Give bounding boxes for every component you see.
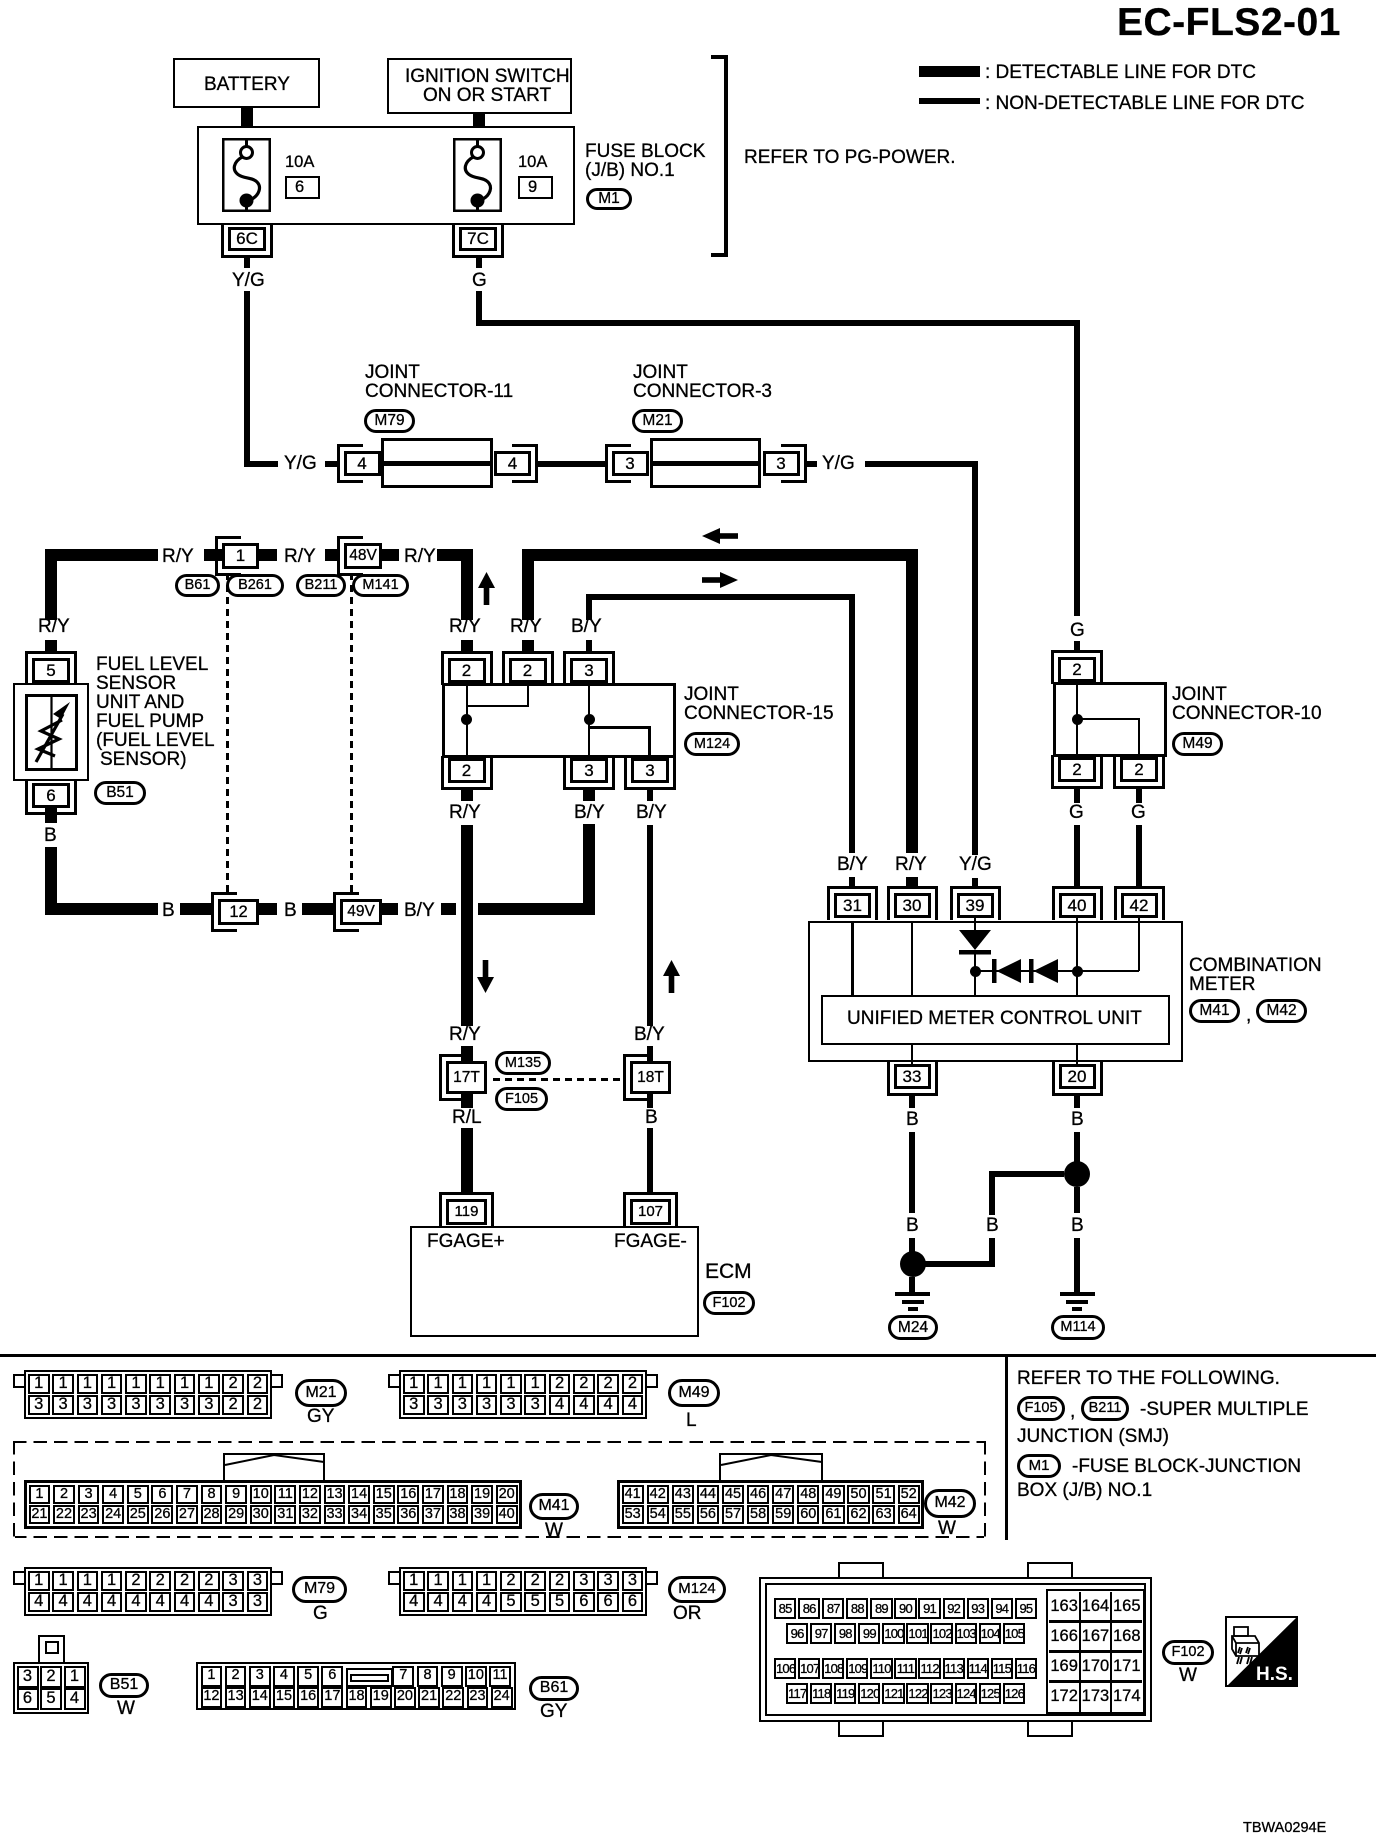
legend non-detectable text [985,94,1305,114]
JC-15 label line1 [684,685,739,705]
wire B/Y horizontal to pin 31 [586,594,855,600]
refer following line4 [1072,1457,1301,1477]
B51 top tab [38,1635,65,1664]
diode D1 pointing down [959,930,991,957]
ignition switch box [387,58,572,114]
dashed link below box 1 [226,573,229,895]
wire label G below JC-10 pin 2a [1069,803,1084,823]
title EC-FLS2-01 [1117,3,1341,44]
JC-10 top pin 2 [1051,650,1103,684]
JC-10 bottom pin 2a [1051,755,1103,789]
connector pinout B61 [196,1662,516,1710]
wire label B/Y bottom [404,901,435,921]
connector M49 oval [1172,732,1223,756]
wire Y/G horizontal to corner [865,461,978,467]
wire B vertical left [45,847,57,915]
JC-15 internal branch down [648,726,651,758]
wire B/Y segment before crossover [441,903,456,915]
connector M21 oval [632,409,683,433]
ignition switch label line2 [423,86,551,106]
wire G vertical from 7C [476,291,482,326]
connector pinout M124 [399,1567,647,1616]
refer to pg-power note [744,148,956,168]
ECM FGAGE+ label [427,1232,505,1252]
meter internal line pin 39 top [974,918,977,932]
meter internal line pin 39 to dot [974,954,977,995]
combination meter box [808,921,1183,1062]
connector M124 oval [684,732,740,756]
ECM label [705,1261,752,1283]
wire label B/Y above 18T [634,1025,665,1045]
M124 color OR [673,1604,702,1624]
wire B/Y vertical down to pin 31 [849,594,855,853]
connector B261 oval [226,574,284,597]
battery label [204,75,290,95]
fuse 9 number [528,179,537,196]
combination meter label line1 [1189,956,1322,976]
refer following line2 [1140,1400,1309,1420]
wire label B below pin 6 [44,826,57,846]
fuel sensor inner box [25,694,78,771]
wire B branch vertical lower [989,1238,995,1267]
wire label B/Y below JC-15 pin 3b [636,803,667,823]
connector B51 oval bottom [99,1673,149,1698]
JC-15 internal branch right [588,726,651,729]
inline connector 49V B211-M141 [333,892,359,932]
wire label B/Y above pin 31 [837,855,868,875]
wire battery to fuse block [241,108,253,127]
wire label B/Y above JC-15 pin 3 [571,617,602,637]
B61 color GY [540,1702,567,1722]
wire label B left of box 12 [162,901,175,921]
JC-15 top pin 3 [563,651,615,685]
connector pinout M42 [617,1480,924,1529]
meter internal dot at pin 39 line [970,966,981,977]
wire Y/G vertical from 6C [244,291,250,464]
fuse 10A no.9 [453,138,502,212]
JC-15 internal junction dot B [584,714,595,725]
meter pin 20 [1052,1062,1103,1096]
JC-10 internal branch down [1138,718,1141,758]
wire B stub into box 12 [180,903,212,915]
wire R/Y stub into JC-15 pin 2a [461,640,473,652]
JC-11 label line2 [365,382,513,402]
wire label G below 7C [472,271,487,291]
JC-10 internal junction dot [1072,714,1083,725]
inline connector 48V B211-M141 [337,536,363,576]
wire R/Y stub out of box 1 [259,549,277,561]
JC-15 internal line pin2b left [466,705,530,708]
fuse 10A no.6 [222,138,271,212]
comma in note [1070,1402,1075,1422]
wire label R/Y right [404,547,436,567]
wire R/Y stub below JC-15 pin 2 [461,790,473,801]
inline connector 1 B61-B261 [215,536,241,576]
wire label R/Y mid [284,547,316,567]
wire R/Y vertical down to JC-15 pin 2a [461,549,473,620]
wire label Y/G above pin 39 [959,855,992,875]
dashed link below box 48V [350,573,353,895]
fuse block label line2 [585,161,675,181]
connector M49 oval bottom [668,1379,720,1407]
fuse 6 number box [285,176,320,199]
connector M79 oval [364,409,415,433]
wire label R/Y above pin 5 [38,617,70,637]
connector M135 oval [495,1051,551,1075]
wire B branch vertical [989,1171,995,1215]
wire R/Y stub out of box 48V [382,549,399,561]
JC-11 body divider [384,461,490,466]
comma between M41 M42 [1246,1006,1251,1026]
fuel sensor pin 5 [25,651,77,685]
fuel sensor label line1 [96,655,208,675]
refer following line3 [1017,1427,1169,1447]
connector M41 oval [1189,999,1240,1023]
wire Y/G stub out of JC-3 [807,461,817,467]
meter internal diode bus [975,970,1139,973]
wire B down to pin 107 [647,1128,653,1193]
separator line above connector section [0,1354,1376,1357]
ECM pin 119 [439,1192,494,1227]
wire label G above JC-10 [1070,621,1085,641]
M49 color L [686,1411,697,1431]
wire label B below pin 20 [1071,1110,1084,1130]
connector M42 oval [1256,999,1307,1023]
wire label R/Y above 17T [449,1025,481,1045]
wire label B/Y below JC-15 pin 3a [574,803,605,823]
wire label B above M114 ground [1071,1216,1084,1236]
wire B into M24 junction [909,1238,915,1253]
wire G down to pin 42 [1136,825,1142,886]
fuel sensor label line3 [96,693,184,713]
JC-15 internal line pin2b down [527,683,530,707]
connector pinout M49 [399,1370,647,1419]
fuse 9 rating 10A [518,154,547,171]
fuel sensor label line5 [96,731,215,751]
wire B from pin 20 down [1074,1132,1080,1162]
wire label R/Y above pin 30 [895,855,927,875]
wire R/Y down to 17T [461,825,473,1026]
wire R/Y stub into pin 5 [45,640,57,652]
wire R/Y stub into JC-15 pin 2b [522,640,534,652]
JC-15 top pin 2b [502,651,554,685]
connector B61 oval [175,574,220,597]
wire Y/G corner horizontal [244,461,278,467]
connector M24 oval [888,1315,938,1340]
JC-11 left pin 4 [337,444,363,483]
wire Y/G vertical down to pin 39 [972,461,978,855]
wire label B above M24 junction [906,1216,919,1236]
fuel sensor symbol [25,694,78,771]
JC-11 right pin 4 [512,444,538,483]
wire B/Y stub out of box 49V [382,903,398,915]
wire label B right of box 12 [284,901,297,921]
arrow down beside R/Y wire [477,960,494,993]
wire G stub into JC-10 pin 2 [1074,641,1080,653]
meter pin 31 [827,886,878,920]
JC-3 body divider [653,461,758,466]
wire B stub out of box 12 [259,903,277,915]
JC-15 top pin 2a [441,651,493,685]
wire R/Y stub into box 1 [204,549,222,561]
svg-text:H.S.: H.S. [1256,1664,1293,1685]
wire B from pin 33 down [909,1132,915,1213]
wire B branch horizontal bottom [925,1261,995,1267]
JC-3 body [650,438,761,489]
wire B branch horizontal top [995,1171,1064,1177]
fuse 6 rating 10A [285,154,314,171]
wire label R/L below 17T [452,1108,482,1128]
wire B stub into box 49V [302,903,333,915]
fuel sensor outer box [13,683,89,781]
connector M42 oval bottom [924,1489,976,1518]
wire B/Y down to 18T [647,825,653,1026]
wire R/Y horizontal to corner [437,549,473,561]
F105 oval in note [1017,1396,1065,1421]
wire B stub below 18T [647,1094,653,1108]
wire B stub below pin 20 [1074,1096,1080,1108]
wire R/Y vertical JC-15 pin 2b up [522,549,534,620]
wire R/Y stub into 17T [461,1046,473,1061]
B211 oval in note [1081,1396,1129,1421]
connector pinout M79 [24,1567,272,1616]
wire B M24 junction to ground [909,1277,915,1292]
wire Y/G stub into JC-11 [325,461,337,467]
fuse block label line1 [585,142,705,162]
wire R/Y stub into box 48V [325,549,337,561]
refer following line1 [1017,1369,1280,1389]
connector M1 oval [586,188,632,210]
JC-15 body [442,683,676,758]
connector F105 oval [495,1087,548,1111]
fuse block J/B no.1 outline [197,126,575,225]
arrow right on B/Y line [702,572,738,588]
wire B horizontal bottom [45,903,158,915]
diode D2 pointing left [992,959,1022,983]
connector pinout M41 [24,1480,522,1529]
ECM box [410,1226,699,1337]
junction node M24 side [900,1251,926,1277]
fuse 6 number [295,179,304,196]
wire G stub below JC-10 pin 2b [1136,789,1142,803]
wire G vertical to JC-10 [1074,320,1080,616]
dashed link 17T to 18T [493,1078,624,1081]
meter internal line pin 40 [1076,918,1079,995]
meter internal line pin 31 [851,921,854,995]
meter pin 30 [887,886,938,920]
meter pin 39 [950,886,1001,920]
wire R/Y horizontal top left [45,549,158,561]
unified meter control unit box [821,995,1170,1045]
wire label G below JC-10 pin 2b [1131,803,1146,823]
wire ignition to fuse block [473,114,485,127]
battery box [173,58,320,108]
arrow up beside B/Y wire [663,960,680,993]
wire B/Y stub into JC-15 pin 3 [586,640,592,652]
wire R/Y thick bus horizontal [528,549,919,561]
JC-3 right pin 3 [781,444,807,483]
ground symbol M24 [895,1292,930,1296]
connector M41 oval bottom [529,1493,579,1520]
ECM FGAGE- label [614,1232,687,1252]
JC-15 bottom pin 2 [441,756,493,790]
B51 color W [117,1699,135,1719]
combination meter label line2 [1189,975,1256,995]
JC-15 internal line pin2a [466,683,469,758]
SMJ dashed enclosure [13,1441,986,1443]
JC-15 bottom pin 3a [563,756,615,790]
connector M124 oval bottom [668,1576,726,1603]
wire R/L down to pin 119 [461,1128,473,1193]
wire label R/Y below JC-15 [449,803,481,823]
meter internal dot at pin 40 line [1072,966,1083,977]
wire label B below pin 33 [906,1110,919,1130]
connector B61 oval bottom [529,1676,579,1701]
connector pinout B51 [13,1662,89,1714]
wire B/Y vertical up to JC-15 pin 3a [583,824,595,915]
JC-15 label line2 [684,704,834,724]
wire G down to pin 40 [1074,825,1080,886]
wire label Y/G right of JC-3 [822,454,855,474]
JC-15 bottom pin 3b [624,756,676,790]
M79 color G [313,1604,328,1624]
JC-11 body [381,438,493,489]
refer bracket bottom arm [711,253,728,257]
M41 bridge mark [223,1452,326,1482]
inline connector 17T M135-F105 [439,1054,465,1101]
connector pinout F102 [838,1562,884,1580]
JC-10 bottom pin 2b [1113,755,1165,789]
wire label R/Y left [162,547,194,567]
ignition switch label line1 [405,67,570,87]
M41 color W [545,1521,563,1541]
meter internal line pin 20 [1076,1045,1079,1064]
F102 color W [1179,1666,1197,1686]
wire B/Y segment after crossover [478,903,595,915]
wire B/Y stub below JC-15 pin 3a [583,790,595,801]
refer bracket top arm [711,55,728,59]
arrow left on R/Y bus [702,528,738,544]
connector 6C [221,225,273,258]
JC-10 body [1053,682,1167,757]
wire B into M114 ground [1074,1238,1080,1292]
connector M79 oval bottom [292,1576,347,1603]
unified meter control unit label [847,1009,1142,1029]
H.S. inspection mark [1225,1616,1298,1687]
wire B stub below pin 6 [45,807,57,823]
legend detectable line sample [919,66,980,77]
meter internal line pin 33 [911,1045,914,1064]
wire Y/G stub into pin 39 [972,878,978,887]
fuel sensor label line2 [96,674,176,694]
wire label Y/G at JC-11 [284,454,317,474]
wire B/Y stub below JC-15 pin 3b [647,790,653,801]
inline connector 12 B61-B261 [211,892,237,932]
meter pin 42 [1114,886,1165,920]
document code TBWA0294E [1243,1821,1326,1836]
JC-3 left pin 3 [605,444,631,483]
wire JC-11 to JC-3 [536,461,606,467]
fuel sensor pin 6 [25,781,77,815]
legend non-detectable line sample [919,98,980,104]
fuel sensor label line4 [96,712,204,732]
wire 7C stub [476,255,482,268]
refer bracket vertical [724,55,728,257]
fuse 9 number box [518,176,553,199]
wire R/Y bus vertical down to pin 30 [906,549,918,853]
M42 color W [938,1519,956,1539]
JC-3 label line2 [633,382,772,402]
connector pinout M21 [24,1370,272,1419]
connector M141 oval [352,574,409,597]
connector B211 oval [296,574,346,597]
JC-10 internal line top [1076,682,1079,757]
connector 7C [452,225,504,258]
JC-3 label line1 [633,363,688,383]
meter internal line pin 42 [1138,918,1141,971]
JC-15 internal junction dot A [461,714,472,725]
wire B/Y stub into 18T [647,1046,653,1061]
refer following line5 [1017,1481,1152,1501]
wire G stub below JC-10 pin 2a [1074,789,1080,803]
wire B stub below pin 33 [909,1096,915,1108]
meter pin 33 [887,1062,938,1096]
JC-10 label line2 [1172,704,1322,724]
inline connector 18T M135-F105 [623,1054,649,1101]
M21 color GY [307,1407,334,1427]
connector F102 oval [703,1291,755,1315]
arrow up beside R/Y wire [478,572,495,605]
wire B/Y vertical JC-15 pin 3 up [586,594,592,620]
wire B below M114 junction [1074,1187,1080,1213]
wire R/Y stub into pin 30 [906,877,918,887]
M42 bridge mark [719,1452,824,1482]
fuel sensor label line6 [100,750,187,770]
ECM pin 107 [623,1192,678,1227]
M1 oval in note [1017,1454,1061,1478]
connector M21 oval bottom [295,1379,347,1407]
wire R/L stub below 17T [461,1094,473,1108]
ground symbol M114 [1060,1292,1095,1296]
meter internal line pin 30 [911,921,914,995]
divider line right section [1005,1355,1008,1540]
JC-10 label line1 [1172,685,1227,705]
wire label R/Y above JC-15 pin 2a [449,617,481,637]
JC-10 internal branch right [1076,718,1141,721]
JC-15 internal line pin3 [588,683,591,758]
wire label Y/G below 6C [232,271,265,291]
diode D3 pointing left [1029,959,1059,983]
legend detectable text [985,63,1256,83]
connector B51 oval [94,781,146,805]
wire R/Y vertical to fuel sensor [45,549,57,620]
connector F102 oval bottom [1162,1640,1214,1665]
wire label R/Y above JC-15 pin 2b [510,617,542,637]
meter pin 40 [1052,886,1103,920]
wire B/Y stub into pin 31 [849,877,855,887]
wire G long horizontal [476,320,1080,326]
wire label B below 18T [645,1108,658,1128]
wire 6C stub [244,255,250,268]
junction node M114 side [1064,1161,1090,1187]
wire label B on branch [986,1216,999,1236]
connector M114 oval [1051,1315,1105,1340]
JC-11 label line1 [365,363,420,383]
